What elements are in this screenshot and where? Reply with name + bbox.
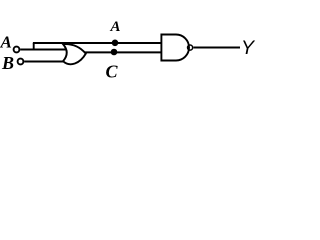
input terminal A — [14, 47, 20, 53]
wire NAND output to Y — [194, 47, 241, 49]
OR gate U1 — [63, 44, 86, 64]
svg-text:A: A — [0, 33, 12, 52]
wire OR gate output to NAND gate bottom input — [85, 51, 162, 53]
wire from terminal A to OR gate input — [20, 49, 66, 51]
svg-text:B: B — [1, 53, 14, 73]
svg-text:A: A — [110, 19, 121, 35]
NAND gate inversion bubble — [188, 45, 193, 50]
NAND gate U2 — [161, 35, 189, 61]
wire top rail to NAND gate top input — [33, 42, 162, 44]
input terminal B — [18, 59, 24, 65]
svg-text:Y: Y — [241, 37, 256, 59]
wire from terminal B to OR gate input — [24, 61, 64, 63]
svg-text:C: C — [106, 62, 119, 82]
wire branch jog up from A wire — [33, 43, 35, 50]
node dot A — [112, 40, 119, 47]
node dot C — [111, 49, 118, 56]
